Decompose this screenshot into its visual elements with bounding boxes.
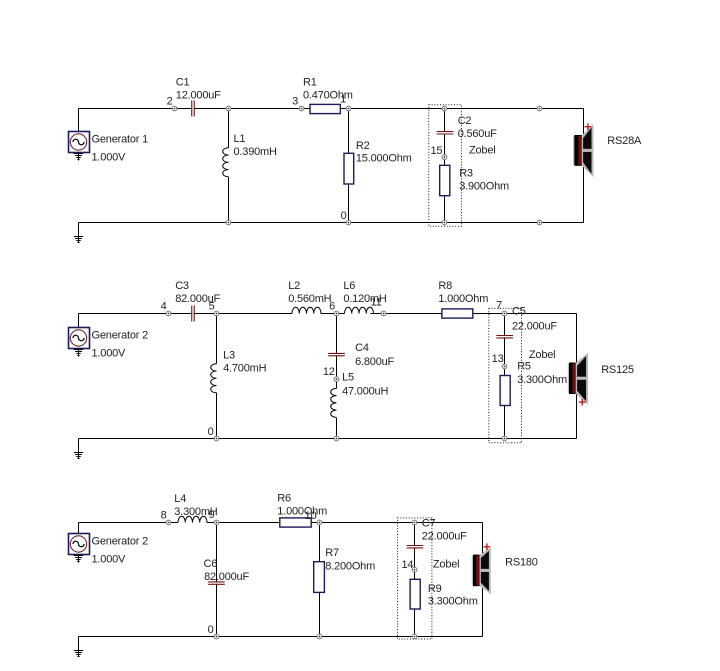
capacitor C3 82.000uF	[175, 280, 220, 322]
svg-text:R6: R6	[277, 493, 291, 505]
node 1	[340, 94, 351, 111]
wire top rail circuit 1	[79, 108, 584, 110]
wire speaker branch right vertical circuit 3	[482, 523, 484, 637]
wire speaker branch right vertical circuit 2	[576, 314, 578, 439]
wire bottom rail circuit 3	[79, 636, 483, 638]
wire top rail circuit 2 segment 3	[371, 313, 577, 315]
node 12	[323, 366, 339, 381]
svg-text:R1: R1	[303, 77, 317, 89]
node 0 circuit 3	[208, 624, 219, 639]
node 3	[292, 96, 304, 111]
svg-text:12.000uF: 12.000uF	[176, 90, 221, 102]
inductor L2 0.560mH	[288, 280, 331, 314]
wire L1 branch lower	[228, 177, 230, 223]
svg-text:3.300Ohm: 3.300Ohm	[517, 374, 567, 386]
node Zobel bottom circuit 1	[442, 220, 447, 225]
svg-text:C5: C5	[512, 306, 526, 318]
node 14	[401, 559, 416, 572]
svg-text:15.000Ohm: 15.000Ohm	[356, 152, 412, 164]
node 9	[209, 509, 219, 525]
wire bottom rail circuit 2	[79, 438, 577, 440]
Zobel network box circuit 3	[398, 518, 432, 639]
svg-text:13: 13	[492, 353, 504, 365]
svg-text:10: 10	[305, 510, 317, 522]
wire L3 branch lower	[216, 393, 218, 439]
svg-text:RS180: RS180	[505, 557, 538, 569]
node 15	[430, 145, 446, 160]
svg-text:14: 14	[401, 559, 413, 571]
svg-text:C4: C4	[355, 342, 369, 354]
svg-text:8.200Ohm: 8.200Ohm	[325, 561, 375, 573]
node speaker top circuit 1	[537, 106, 542, 111]
svg-text:22.000uF: 22.000uF	[512, 321, 557, 333]
svg-text:R5: R5	[517, 360, 531, 372]
wire Zobel branch vertical circuit 2	[504, 314, 506, 439]
svg-text:1.000V: 1.000V	[92, 348, 127, 360]
wire R2 branch vertical	[348, 109, 350, 223]
svg-text:Generator 1: Generator 1	[92, 134, 149, 146]
resistor R3 3.900Ohm	[440, 165, 509, 195]
svg-text:47.000uH: 47.000uH	[342, 386, 388, 398]
svg-text:3: 3	[292, 96, 298, 108]
svg-text:1.000Ohm: 1.000Ohm	[438, 293, 488, 305]
node 11	[370, 297, 385, 316]
Zobel network box circuit 2	[489, 308, 522, 442]
inductor L1 0.390mH	[223, 133, 277, 177]
capacitor C4 6.800uF	[328, 342, 394, 368]
svg-text:82.000uF: 82.000uF	[204, 571, 249, 583]
svg-text:L2: L2	[288, 280, 300, 292]
resistor R8 1.000Ohm	[438, 280, 488, 318]
svg-text:5: 5	[209, 301, 215, 313]
svg-text:L4: L4	[174, 493, 186, 505]
wire L1 branch upper	[228, 109, 230, 148]
node 0 circuit 2	[208, 426, 219, 441]
wire Zobel branch vertical circuit 3	[414, 523, 416, 637]
wire top rail circuit 2 segment 2	[321, 313, 345, 315]
node C4 branch bottom	[334, 436, 339, 441]
svg-text:RS125: RS125	[601, 364, 634, 376]
svg-text:0: 0	[208, 426, 214, 438]
svg-text:22.000uF: 22.000uF	[422, 531, 467, 543]
node 6	[329, 301, 339, 316]
wire R7 branch vertical	[319, 523, 321, 637]
node Zobel top circuit 1	[442, 106, 447, 111]
svg-text:1.000V: 1.000V	[92, 554, 127, 566]
capacitor C1 12.000uF	[176, 77, 221, 117]
svg-text:15: 15	[430, 145, 442, 157]
svg-text:R3: R3	[459, 168, 473, 180]
svg-text:6: 6	[329, 301, 335, 313]
svg-text:C2: C2	[458, 115, 472, 127]
node 4	[161, 301, 171, 316]
svg-text:7: 7	[496, 299, 502, 311]
wire top rail circuit 3 segment 2	[207, 522, 483, 524]
svg-text:Zobel: Zobel	[469, 145, 496, 157]
svg-text:Generator 2: Generator 2	[92, 536, 149, 548]
svg-text:R9: R9	[428, 583, 442, 595]
resistor R9 3.300Ohm	[410, 579, 478, 609]
node R7 bottom	[317, 634, 322, 639]
svg-text:C6: C6	[204, 558, 218, 570]
svg-text:0: 0	[341, 210, 347, 222]
capacitor C6 82.000uF	[204, 558, 250, 584]
node 2	[167, 96, 177, 111]
speaker RS125	[568, 353, 634, 406]
svg-text:0.390mH: 0.390mH	[234, 146, 277, 158]
svg-text:RS28A: RS28A	[607, 135, 642, 147]
svg-text:11: 11	[370, 297, 381, 309]
inductor L5 47.000uH	[331, 371, 389, 417]
svg-text:R2: R2	[356, 140, 370, 152]
svg-text:0.560uF: 0.560uF	[458, 128, 497, 140]
resistor R6 1.000Ohm	[277, 493, 327, 527]
resistor R5 3.300Ohm	[500, 360, 567, 405]
node Zobel bottom circuit 2	[502, 436, 507, 441]
svg-text:C3: C3	[175, 280, 189, 292]
capacitor C2 0.560uF	[437, 115, 497, 140]
svg-text:12: 12	[323, 366, 335, 378]
svg-text:1.000V: 1.000V	[92, 152, 127, 164]
inductor L3 4.700mH	[211, 350, 267, 393]
ground circuit 1	[74, 223, 83, 243]
ground circuit 2	[74, 439, 83, 459]
wire C4 L5 branch lower	[336, 418, 338, 439]
ground circuit 3	[74, 637, 83, 657]
svg-text:Zobel: Zobel	[433, 559, 460, 571]
speaker RS28A	[573, 123, 642, 177]
voltage source Generator 1	[69, 109, 149, 164]
svg-text:L6: L6	[343, 280, 355, 292]
svg-text:C1: C1	[176, 77, 190, 89]
node speaker bottom circuit 1	[537, 220, 542, 225]
wire top rail circuit 3 segment 1	[79, 522, 179, 524]
node Zobel top circuit 3	[412, 520, 417, 525]
voltage source Generator 2 (woofer)	[69, 523, 149, 566]
svg-text:0.560mH: 0.560mH	[288, 293, 331, 305]
capacitor C7 22.000uF	[407, 518, 468, 548]
svg-text:L1: L1	[234, 133, 246, 145]
wire C6 branch vertical	[216, 523, 218, 637]
wire speaker branch right vertical circuit 1	[583, 109, 585, 223]
svg-text:4: 4	[161, 301, 167, 313]
svg-text:6.800uF: 6.800uF	[355, 356, 394, 368]
node 5	[209, 301, 219, 316]
svg-text:3.900Ohm: 3.900Ohm	[459, 181, 509, 193]
node L1 bottom	[226, 220, 231, 225]
svg-text:4.700mH: 4.700mH	[223, 363, 266, 375]
node 7	[496, 299, 507, 316]
svg-text:R7: R7	[325, 547, 339, 559]
wire L3 branch upper	[216, 314, 218, 364]
wire C4 L5 branch upper	[336, 314, 338, 389]
capacitor C5 22.000uF	[496, 306, 557, 338]
svg-text:Zobel: Zobel	[529, 349, 556, 361]
svg-text:3.300Ohm: 3.300Ohm	[428, 595, 478, 607]
inductor L4 3.300mH	[174, 493, 217, 523]
resistor R2 15.000Ohm	[344, 140, 412, 184]
voltage source Generator 2 (midrange)	[69, 314, 149, 360]
svg-text:0: 0	[208, 624, 214, 636]
svg-text:1: 1	[340, 94, 346, 106]
node junction L1 top	[226, 106, 231, 111]
Zobel network box circuit 1	[429, 105, 462, 227]
wire Zobel branch vertical circuit 1	[444, 109, 446, 223]
svg-text:9: 9	[209, 509, 215, 521]
node 13	[492, 353, 507, 369]
wire bottom rail circuit 1	[79, 222, 584, 224]
svg-text:R8: R8	[438, 280, 452, 292]
svg-text:1.000Ohm: 1.000Ohm	[277, 506, 327, 518]
svg-text:L3: L3	[223, 350, 235, 362]
resistor R1 0.470Ohm	[303, 77, 353, 114]
node 0 circuit 1	[341, 210, 351, 225]
speaker RS180	[472, 543, 538, 594]
inductor L6 0.120mH	[343, 280, 386, 314]
resistor R7 8.200Ohm	[314, 547, 375, 592]
svg-text:8: 8	[161, 510, 167, 522]
node Zobel bottom circuit 3	[412, 634, 417, 639]
svg-text:L5: L5	[342, 371, 354, 383]
svg-text:C7: C7	[422, 518, 436, 530]
svg-text:Generator 2: Generator 2	[92, 330, 149, 342]
wire top rail circuit 2 segment 1	[79, 313, 293, 315]
node 8	[161, 510, 171, 525]
svg-text:2: 2	[167, 96, 173, 108]
node 10	[305, 510, 322, 525]
